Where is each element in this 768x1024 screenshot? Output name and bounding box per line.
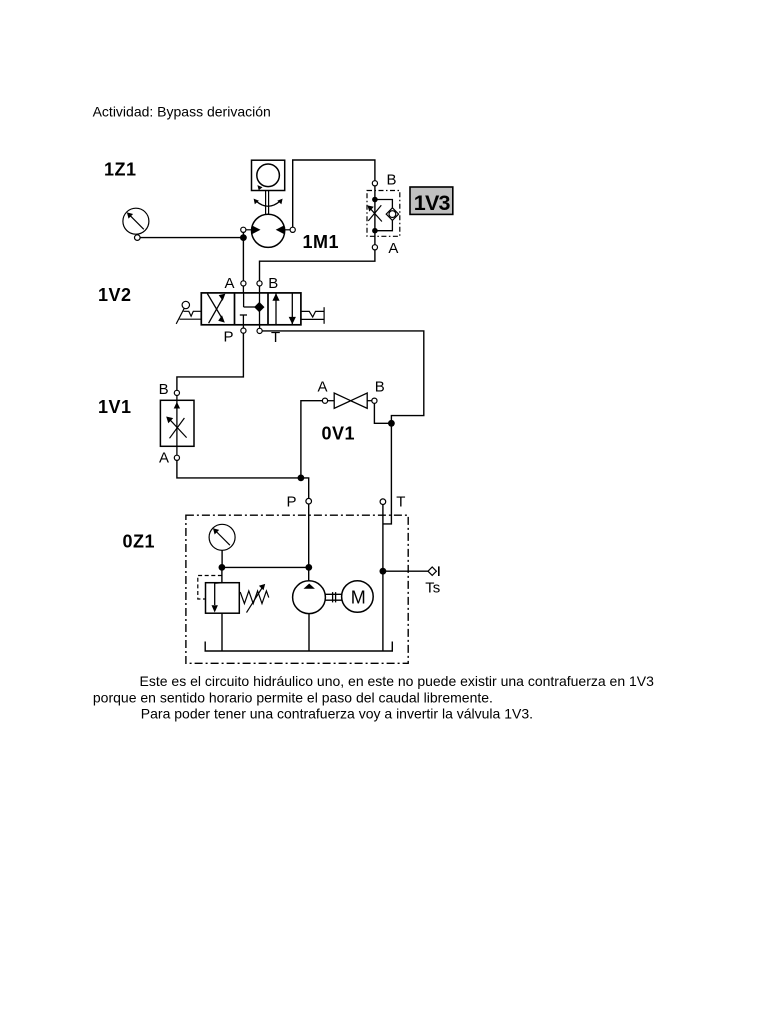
wire T down to tank (382, 505, 384, 652)
node Ts junction (380, 568, 387, 575)
1V3 port A (372, 245, 377, 250)
motor 1M1 swing arrows (256, 201, 280, 206)
pump (293, 581, 326, 614)
relief valve adjust arrow (247, 588, 263, 613)
electric motor M (342, 581, 374, 613)
svg-text:1V1: 1V1 (98, 397, 132, 417)
wire gauge junction to pump junction (222, 566, 309, 568)
1V3 bypass wire (375, 200, 393, 231)
wire junction to P port (301, 478, 309, 499)
svg-text:A: A (388, 240, 398, 257)
1V1 body (160, 400, 194, 446)
wire junction down to valve A (242, 238, 244, 281)
pump arrow (304, 584, 315, 589)
gauge 1Z1 (123, 208, 149, 240)
motor 1M1 circle (252, 214, 285, 247)
wire P into power unit (308, 504, 310, 581)
node gauge junction (219, 564, 226, 571)
svg-text:M: M (351, 588, 366, 608)
tank (205, 642, 392, 652)
wire 1V1 A to junction (177, 460, 301, 478)
svg-text:A: A (318, 379, 328, 396)
svg-text:B: B (159, 381, 169, 398)
wire 0V1 B to right junction (374, 403, 391, 423)
valve 1V2 spring actuator (301, 307, 324, 324)
svg-text:P: P (224, 329, 234, 346)
valve 1V2 port T (257, 328, 262, 333)
node junction left of motor (240, 234, 247, 241)
Ts port bar (438, 566, 440, 576)
relief valve spring (240, 591, 269, 604)
svg-text:1V3: 1V3 (414, 191, 451, 215)
motor 1M1 shaft (266, 191, 269, 215)
valve 1V2 right cell arrows (276, 293, 292, 325)
1V3 port B (372, 181, 377, 186)
svg-text:Actividad: Bypass derivación: Actividad: Bypass derivación (93, 104, 271, 120)
0V1 port B (372, 398, 377, 403)
node pump junction (305, 564, 312, 571)
1V3 node bottom (372, 228, 378, 234)
svg-text:P: P (287, 494, 297, 511)
wire relief valve to tank (221, 613, 223, 651)
wire 0V1 A to junction (301, 401, 323, 478)
1V1 inner line (176, 396, 178, 456)
svg-text:A: A (159, 450, 169, 467)
relief valve pilot dashes (198, 576, 222, 600)
svg-text:1V2: 1V2 (98, 285, 132, 305)
0V1 shut-off valve (334, 393, 367, 408)
gauge 0Z1 (209, 524, 235, 550)
1V1 port B (174, 390, 179, 395)
motor 1M1 tacho box (252, 160, 285, 190)
wire junction up to motor left port (242, 232, 244, 237)
motor 1M1 right port (285, 227, 296, 232)
1V3 throttle arrow (368, 205, 382, 221)
svg-text:A: A (225, 275, 235, 292)
relief valve internals (215, 583, 222, 605)
svg-text:B: B (375, 379, 385, 396)
Ts port diamond (428, 567, 436, 575)
valve 1V2 middle cell (240, 293, 260, 325)
1V1 port A (174, 455, 179, 460)
wire motor right port to 1V3 B (293, 160, 375, 227)
1V1 throttle arrow (170, 418, 187, 438)
svg-text:Este es el circuito hidráulico: Este es el circuito hidráulico uno, en e… (140, 673, 655, 689)
motor 1M1 left arrow (252, 225, 261, 234)
valve 1V2 port P (241, 328, 246, 333)
valve 1V2 left cell crossed arrows (207, 294, 222, 324)
1V3 main line (374, 186, 376, 245)
motor 1M1 left port (241, 227, 252, 232)
1V3 node top (372, 197, 378, 203)
motor 1M1 right arrow (276, 225, 285, 234)
svg-text:Para poder tener una contrafue: Para poder tener una contrafuerza voy a … (141, 706, 533, 722)
pump drain to tank (308, 614, 310, 651)
port P above power unit (306, 498, 312, 504)
wire right junction down jog to T line (383, 423, 392, 524)
svg-text:B: B (268, 275, 278, 292)
wire gauge 0Z1 down (221, 550, 223, 567)
1V3 dash-dot box (367, 191, 400, 237)
svg-text:T: T (396, 494, 405, 511)
node right junction (388, 420, 395, 427)
valve 1V2 port A (241, 281, 246, 286)
svg-text:0Z1: 0Z1 (123, 532, 156, 552)
wire Ts (383, 570, 428, 572)
port T above power unit (380, 499, 386, 505)
wire 1V2 T to right trunk (262, 331, 424, 420)
wire 1V2 P down to 1V1 B (177, 333, 244, 390)
svg-text:1M1: 1M1 (303, 232, 340, 252)
svg-text:porque en sentido horario perm: porque en sentido horario permite el pas… (93, 689, 493, 705)
valve 1V2 body (201, 293, 301, 325)
pump motor shaft (325, 592, 341, 602)
1V3 gray label box (410, 187, 453, 214)
0Z1 dash-dot box (186, 515, 408, 663)
node junction below 0V1 (298, 475, 305, 482)
1V3 check valve (386, 208, 398, 221)
svg-text:0V1: 0V1 (322, 424, 356, 444)
valve 1V2 lever actuator (176, 301, 201, 324)
svg-text:B: B (387, 172, 397, 189)
svg-text:1Z1: 1Z1 (104, 160, 137, 180)
relief valve (221, 567, 223, 582)
0V1 port A (322, 398, 327, 403)
wire gauge1Z1 to junction (140, 237, 243, 239)
svg-text:Ts: Ts (425, 580, 440, 597)
wire 1V3 A to valve 1V2 B (260, 250, 375, 281)
valve 1V2 port B (257, 281, 262, 286)
1V1 check arrow (174, 402, 180, 409)
